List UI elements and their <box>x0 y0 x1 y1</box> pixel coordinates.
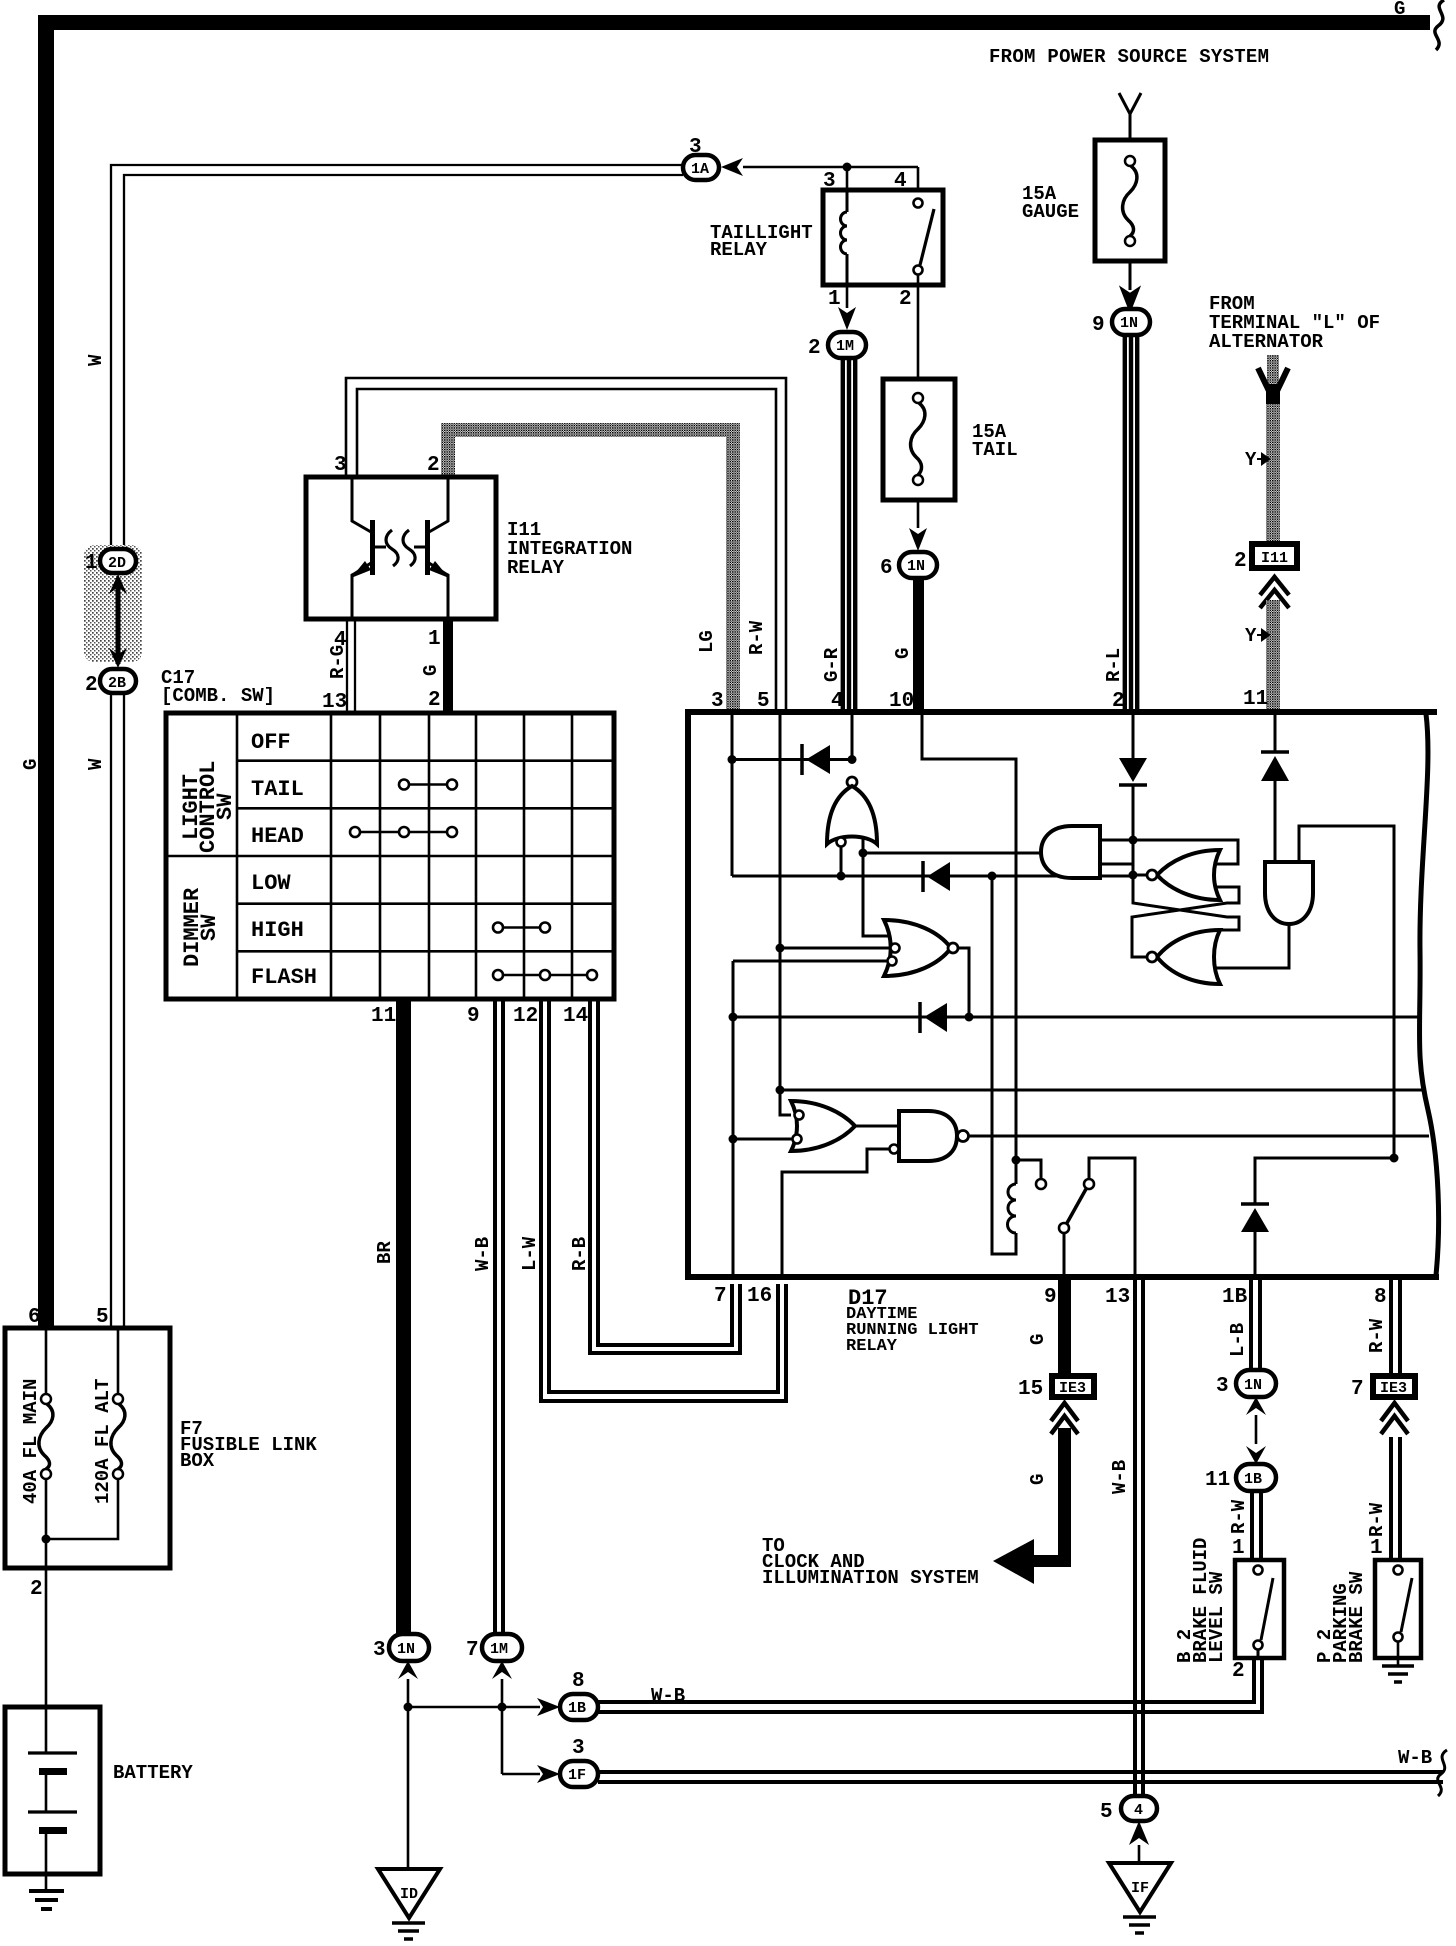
svg-text:16: 16 <box>747 1285 772 1308</box>
gate NOR N1 (3 input, pointing right) <box>884 920 958 976</box>
svg-text:1M: 1M <box>490 1641 508 1658</box>
svg-text:2D: 2D <box>108 555 126 572</box>
svg-text:HEAD: HEAD <box>251 824 304 849</box>
node dot 1133/840 <box>1129 836 1138 845</box>
wire W (double line from 1A to 2D) <box>111 165 683 549</box>
svg-text:8: 8 <box>572 1670 585 1693</box>
gate NOR U2 (pointing left, upper latch) <box>1147 850 1220 900</box>
connector 1F pin 3 <box>560 1737 598 1787</box>
connector 4 pin 5 <box>1100 1796 1157 1824</box>
fuse 15A GAUGE <box>1022 140 1165 261</box>
wire latch cross (U2 out to U3 input) <box>1133 875 1239 930</box>
svg-text:1N: 1N <box>1244 1377 1262 1394</box>
arrow into connector 1N pin 9 <box>1121 288 1139 311</box>
wire taillight pin2 to 15A TAIL fuse <box>917 285 920 379</box>
connector 1N pin 3 (bottom left) <box>373 1634 429 1662</box>
svg-text:GAUGE: GAUGE <box>1022 201 1079 223</box>
wire D17 pin11 internal with diode <box>1274 712 1277 753</box>
wire D17 pin3 internal vertical <box>731 715 734 876</box>
ground below P2 <box>1382 1642 1414 1682</box>
integration relay I11 <box>306 454 632 619</box>
wire W-B (D17 pin 13 to connector 4) <box>1135 1280 1143 1796</box>
wire gauge fuse to 1N <box>1129 261 1132 290</box>
wire R-W (1B to brake fluid switch pin 1) <box>1252 1491 1261 1560</box>
wire G thick (1N to D17 pin 10) <box>913 578 924 709</box>
connector 1A pin 3 <box>683 136 719 180</box>
wire stub broken end (alternator) <box>1258 355 1288 405</box>
svg-text:2B: 2B <box>108 675 126 692</box>
diode D1 (left pointing) <box>802 744 830 775</box>
node junction at taillight pin3 <box>843 163 852 172</box>
svg-text:G: G <box>1027 1334 1049 1345</box>
wire R-W (IE3 to parking brake switch) <box>1391 1437 1400 1560</box>
switch contacts HIGH row <box>493 923 550 933</box>
wire long row 876 <box>732 875 1133 878</box>
svg-text:1M: 1M <box>836 338 854 355</box>
gate NOR U3 (pointing left, lower latch) <box>1147 930 1220 984</box>
wire break squiggle right edge <box>1438 1750 1447 1796</box>
wire O1 output to NAND <box>855 1125 899 1128</box>
svg-text:1: 1 <box>1370 1537 1383 1560</box>
wire A2 output to U3 input <box>1216 924 1289 968</box>
wire latch loop top (dot1133/840 to U2 upper input) <box>1133 840 1238 864</box>
switch contacts FLASH row <box>493 970 597 980</box>
wire long row 1017 <box>733 1016 1421 1019</box>
fuse 40A FL MAIN <box>20 1328 53 1568</box>
wire D17 pin5 internal vertical <box>780 715 791 1115</box>
arrow below 1M <box>492 1661 512 1679</box>
connector 1M pin 2 <box>808 332 866 360</box>
svg-text:120A FL ALT: 120A FL ALT <box>92 1379 114 1504</box>
wire W-B (1F to right edge) <box>598 1772 1443 1782</box>
arrow into connector 1N pin 6 <box>909 528 927 551</box>
relay coil (inside D17) <box>1008 1156 1021 1234</box>
node dot 502/1707 <box>498 1703 507 1712</box>
svg-text:R-W: R-W <box>1228 1499 1250 1534</box>
svg-text:ID: ID <box>400 1886 418 1903</box>
svg-text:SW: SW <box>213 793 238 820</box>
wire U1 right input down to NOR N1 <box>863 837 890 936</box>
svg-text:BOX: BOX <box>180 1450 215 1472</box>
wire 1A to taillight relay pins 3 and 4 <box>743 167 918 190</box>
relay contact fixed (circle) <box>1016 1160 1041 1179</box>
svg-text:[COMB. SW]: [COMB. SW] <box>161 685 275 707</box>
svg-text:FROM POWER SOURCE SYSTEM: FROM POWER SOURCE SYSTEM <box>989 46 1269 68</box>
C17 pin 9 / wire W-B <box>467 999 503 1634</box>
svg-text:2: 2 <box>1232 1660 1245 1683</box>
diode D3 (left pointing) on row 1017 <box>920 1002 947 1033</box>
wire contact to pin13 <box>1089 1158 1135 1277</box>
arrow chevrons below IE3 <box>1051 1403 1078 1434</box>
svg-text:3: 3 <box>1216 1375 1229 1398</box>
connector 1N pin 3 (right) <box>1216 1370 1276 1398</box>
node dot 863/853 <box>859 849 868 858</box>
wire N1 output to row 1017 <box>958 948 969 1017</box>
wire U2 output to dot 1133/875 <box>1133 874 1147 877</box>
svg-text:Y: Y <box>1245 449 1257 471</box>
svg-text:L-W: L-W <box>519 1236 541 1271</box>
svg-text:LEVEL SW: LEVEL SW <box>1206 1571 1228 1663</box>
wire vertical 992 to relay coil bottom <box>992 876 1016 1254</box>
wire diode row 759 <box>732 758 852 761</box>
arrow below 1N right <box>1246 1397 1266 1415</box>
svg-text:3: 3 <box>572 1737 585 1760</box>
wire break squiggle top right <box>1435 0 1444 50</box>
connector 1N pin 9 <box>1092 309 1150 337</box>
transistor left (inside I11) <box>351 477 386 619</box>
arrow into 1F <box>537 1765 560 1783</box>
svg-text:1A: 1A <box>691 161 709 178</box>
svg-text:RELAY: RELAY <box>507 557 565 579</box>
arrow chevrons below I11 connector <box>1260 577 1289 608</box>
connector I11 pin 2 <box>1234 541 1300 573</box>
diode D4 (down pointing) <box>1119 758 1147 785</box>
relay switch blade (inside D17) <box>1059 1179 1094 1233</box>
node dot pin3-diode junction <box>728 755 737 764</box>
arrow below connector 4 <box>1129 1821 1149 1845</box>
svg-text:R-L: R-L <box>1103 648 1125 682</box>
node Y label upper <box>1245 449 1269 471</box>
svg-text:G: G <box>1394 0 1405 20</box>
wire 1M down to 1F branch <box>501 1679 504 1774</box>
wire taillight pin1 to 1M <box>846 285 849 308</box>
wire from power source (arrow + stem) <box>1119 93 1141 140</box>
node dot 408/1707 <box>404 1703 413 1712</box>
svg-text:R-W: R-W <box>1366 1318 1388 1353</box>
node dot pin4-diode junction <box>848 755 857 764</box>
svg-text:8: 8 <box>1374 1286 1387 1309</box>
diode D5 (up pointing) <box>1261 752 1289 781</box>
wire long row 1090 <box>780 1089 1424 1092</box>
wire AND A1 output row 853 <box>863 852 1041 855</box>
node dot 992/876 <box>988 872 997 881</box>
gate AND A2 (pointing down) <box>1265 862 1313 924</box>
svg-text:ILLUMINATION SYSTEM: ILLUMINATION SYSTEM <box>762 1567 979 1589</box>
svg-text:1F: 1F <box>568 1767 586 1784</box>
node dot 1133/875 <box>1129 871 1138 880</box>
wire to IF ground <box>1138 1845 1141 1863</box>
ground IF <box>1109 1863 1171 1933</box>
wire O1 low input from pin7 line <box>733 1138 792 1141</box>
battery <box>5 1707 193 1874</box>
switch contacts TAIL row <box>399 780 457 790</box>
svg-text:W-B: W-B <box>472 1237 494 1271</box>
svg-text:1B: 1B <box>1244 1471 1262 1488</box>
node dot 841/876 <box>837 872 846 881</box>
wire ground rail horizontal <box>408 1706 540 1709</box>
wire latch cross (U3 out to U2 input) <box>1132 887 1239 957</box>
svg-text:W: W <box>85 758 107 770</box>
svg-text:W-B: W-B <box>651 1685 685 1707</box>
arrow into 1B right <box>1246 1446 1266 1464</box>
wire D17 pin7 internal vertical <box>732 961 735 1277</box>
svg-text:1B: 1B <box>568 1700 586 1717</box>
svg-text:7: 7 <box>1351 1378 1364 1401</box>
svg-text:9: 9 <box>467 1005 480 1028</box>
svg-text:5: 5 <box>757 690 770 713</box>
svg-text:10: 10 <box>889 690 914 713</box>
connector 1M pin 7 (bottom) <box>466 1634 522 1662</box>
switch contacts HEAD row <box>350 827 457 837</box>
svg-text:RELAY: RELAY <box>846 1337 898 1356</box>
wire pin1B internal with diode <box>1254 1232 1257 1277</box>
wire L-B (D17 pin 1B to 1N) <box>1251 1280 1260 1370</box>
coupling curls between transistors <box>386 530 415 566</box>
combination switch C17 table <box>166 713 614 999</box>
ground below battery <box>29 1874 64 1909</box>
wire A2 right input loop from pin1B row <box>1299 826 1394 1158</box>
svg-text:2: 2 <box>85 674 98 697</box>
svg-text:W-B: W-B <box>1109 1460 1131 1494</box>
svg-text:ALTERNATOR: ALTERNATOR <box>1209 331 1324 353</box>
svg-text:12: 12 <box>513 1005 538 1028</box>
svg-text:G-R: G-R <box>821 647 843 682</box>
svg-text:13: 13 <box>1105 1286 1130 1309</box>
wire W-B (1B to brake fluid switch pin 2) <box>598 1658 1262 1712</box>
svg-text:4: 4 <box>1134 1802 1143 1819</box>
gate NAND N2 <box>890 1111 969 1161</box>
svg-text:1: 1 <box>428 628 441 651</box>
svg-text:OFF: OFF <box>251 730 291 755</box>
svg-text:G: G <box>20 759 42 770</box>
wire 1F branch horizontal <box>502 1773 540 1776</box>
arrow below 1N <box>398 1661 418 1679</box>
C17 pin 12 / wire L-W <box>513 999 786 1401</box>
svg-text:11: 11 <box>1243 688 1268 711</box>
svg-text:14: 14 <box>563 1005 588 1028</box>
wire N1 mid input from pin5 line <box>780 947 890 950</box>
svg-text:7: 7 <box>714 1285 727 1308</box>
FROM TERMINAL L OF ALTERNATOR label <box>1209 293 1380 353</box>
wire D17 pin4 internal stub <box>851 715 854 759</box>
svg-text:FLASH: FLASH <box>251 965 317 990</box>
shield stipple around 2D/2B <box>84 545 142 662</box>
wire G thick (IE3 to clock arrow) <box>1058 1428 1071 1567</box>
svg-text:2: 2 <box>808 337 821 360</box>
svg-text:9: 9 <box>1092 314 1105 337</box>
svg-text:G: G <box>420 665 442 676</box>
TO CLOCK AND ILLUMINATION SYSTEM label <box>762 1535 979 1589</box>
wire N2 low input to pin16 <box>782 1149 890 1277</box>
wire G main power (thick top border) <box>38 15 1430 1328</box>
connector IE3 pin 7 <box>1351 1373 1418 1401</box>
svg-text:2: 2 <box>427 454 440 477</box>
connector 1N pin 6 <box>880 552 937 580</box>
I11 pin 1 / G wire to C17 pin 2 <box>420 619 453 713</box>
connector 1B pin 11 <box>1205 1464 1276 1492</box>
wire U1 bubble input left <box>837 838 846 847</box>
svg-text:5: 5 <box>1100 1801 1113 1824</box>
wire A1 right lines <box>1100 840 1133 864</box>
svg-text:2: 2 <box>30 1578 43 1601</box>
arrow at connector 1A <box>721 158 743 176</box>
svg-text:15: 15 <box>1018 1378 1043 1401</box>
svg-text:IF: IF <box>1131 1880 1149 1897</box>
ground ID <box>378 1869 440 1939</box>
svg-text:1B: 1B <box>1222 1286 1248 1309</box>
svg-text:BR: BR <box>374 1241 396 1264</box>
svg-text:R-W: R-W <box>1366 1502 1388 1537</box>
svg-text:BATTERY: BATTERY <box>113 1762 193 1784</box>
svg-text:SW: SW <box>197 914 222 941</box>
svg-text:R-W: R-W <box>746 620 768 655</box>
arrow TO CLOCK (thick bent arrow) <box>993 1539 1059 1584</box>
svg-text:11: 11 <box>371 1005 396 1028</box>
svg-text:2: 2 <box>899 288 912 311</box>
fuse 15A TAIL <box>883 379 1018 500</box>
connector 2B pin 2 <box>85 669 136 697</box>
svg-text:40A FL MAIN: 40A FL MAIN <box>20 1379 42 1504</box>
svg-text:RELAY: RELAY <box>710 239 768 261</box>
wire tail fuse to 1N <box>917 500 920 528</box>
svg-text:1N: 1N <box>1120 315 1138 332</box>
svg-text:4: 4 <box>831 690 844 713</box>
svg-text:TAIL: TAIL <box>972 439 1018 461</box>
svg-text:BRAKE SW: BRAKE SW <box>1346 1571 1368 1663</box>
svg-text:LOW: LOW <box>251 871 291 896</box>
svg-text:3: 3 <box>711 690 724 713</box>
node Y label lower <box>1245 625 1269 647</box>
svg-text:1N: 1N <box>397 1641 415 1658</box>
wire W (2B to fusible link box pin 5) <box>111 693 124 1328</box>
svg-text:W: W <box>85 354 107 366</box>
wire N1 low input from pin7 line <box>733 960 887 963</box>
wire R-W (D17 pin 8 to IE3 right) <box>1391 1280 1400 1373</box>
wire arrow between 2D and 2B <box>109 574 127 668</box>
switch P2 PARKING BRAKE SW <box>1314 1560 1421 1663</box>
wire D17 pin2 internal with diode <box>1132 712 1135 758</box>
fusible link box F7 <box>5 1306 317 1568</box>
arrow into connector 1M <box>838 307 856 330</box>
svg-text:11: 11 <box>1205 1469 1230 1492</box>
node dot 969/1017 <box>965 1013 974 1022</box>
svg-text:HIGH: HIGH <box>251 918 304 943</box>
node dot 1394/1158 <box>1390 1154 1399 1163</box>
svg-text:W-B: W-B <box>1398 1747 1432 1769</box>
wire blade to pin9 <box>1063 1233 1066 1277</box>
svg-text:2: 2 <box>1112 690 1125 713</box>
wire Y hatched (alternator to I11 connector) <box>1266 404 1280 541</box>
wire N2 output long row 1136 <box>968 1135 1429 1138</box>
svg-text:L-B: L-B <box>1227 1323 1249 1357</box>
wire 1N to ground node <box>407 1679 410 1869</box>
node dot 733/1017 <box>729 1013 738 1022</box>
gate NOR-up U1 (pointing up, output bubble top) <box>827 777 877 844</box>
wire Y hatched (I11 connector to D17 pin 11) <box>1266 600 1280 711</box>
svg-text:Y: Y <box>1245 625 1257 647</box>
wire LG hatched loop (I11 pin 2 to D17 pin 3) <box>441 423 740 709</box>
C17 pin 14 / wire R-B <box>563 999 740 1353</box>
svg-text:1N: 1N <box>907 558 925 575</box>
C17 pin 11 / wire BR <box>371 999 411 1634</box>
svg-text:6: 6 <box>880 557 893 580</box>
svg-text:IE3: IE3 <box>1059 1380 1086 1397</box>
svg-text:R-G: R-G <box>327 645 349 679</box>
node dot 780/1090 <box>776 1086 785 1095</box>
svg-text:IE3: IE3 <box>1380 1380 1407 1397</box>
node junction inside F7 <box>42 1535 51 1544</box>
I11 pin 4 / R-G wire to C17 pin 13 <box>322 619 355 714</box>
svg-text:LG: LG <box>696 630 718 653</box>
svg-text:3: 3 <box>334 454 347 477</box>
relay D17 DAYTIME RUNNING LIGHT RELAY box <box>685 688 1439 1356</box>
svg-text:TAIL: TAIL <box>251 777 304 802</box>
relay TAILLIGHT RELAY <box>710 170 943 311</box>
svg-text:1: 1 <box>1232 1537 1245 1560</box>
svg-text:9: 9 <box>1044 1286 1057 1309</box>
arrow into 1B <box>537 1698 560 1716</box>
diode D2 (left pointing) on row 876 <box>923 861 950 892</box>
wire F7 pin 2 to battery <box>30 1568 46 1707</box>
arrow chevrons below IE3 right <box>1381 1403 1408 1434</box>
connector 2D pin 1 <box>85 549 136 575</box>
diode D6 (up pointing) <box>1241 1204 1269 1232</box>
svg-text:1: 1 <box>85 552 98 575</box>
wire D17 pin10 internal to coil top <box>922 715 1016 1160</box>
svg-text:G: G <box>892 648 914 659</box>
wire G thick (D17 pin 9 to IE3) <box>1058 1280 1071 1373</box>
gate OR O1 (2 input with bubbles) <box>791 1101 855 1151</box>
wire R-W loop (I11 pin 3 to D17 pin 5, double line) <box>346 378 786 709</box>
svg-text:R-B: R-B <box>569 1237 591 1271</box>
connector IE3 pin 15 <box>1018 1373 1097 1401</box>
wire 1N to 1B <box>1255 1415 1258 1444</box>
svg-text:G: G <box>1027 1474 1049 1485</box>
svg-text:3: 3 <box>373 1639 386 1662</box>
svg-text:2: 2 <box>1234 550 1247 573</box>
wire G-R (1M to D17 pin 4) <box>841 358 858 709</box>
svg-text:2: 2 <box>428 689 441 712</box>
switch B2 BRAKE FLUID LEVEL SW <box>1174 1538 1284 1683</box>
connector 1B pin 8 <box>560 1670 598 1720</box>
svg-text:7: 7 <box>466 1639 479 1662</box>
wire R-L (1N to D17 pin 2) <box>1123 335 1140 709</box>
transistor right (inside I11) <box>414 477 449 619</box>
fuse 120A FL ALT <box>46 1328 125 1539</box>
gate AND A1 (pointing left) <box>1041 826 1100 878</box>
svg-text:I11: I11 <box>1261 550 1288 567</box>
